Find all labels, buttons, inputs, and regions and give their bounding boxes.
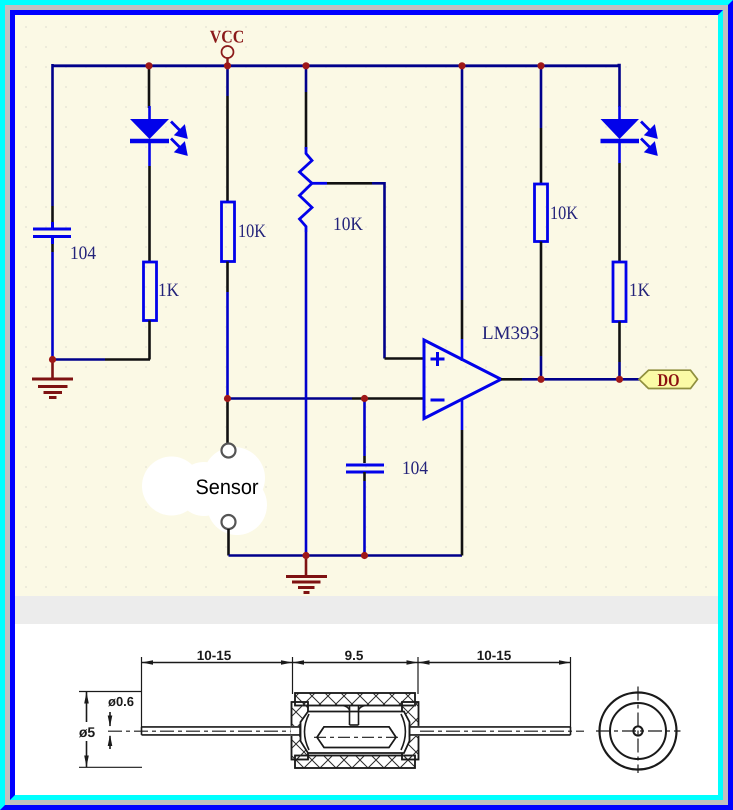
body top wall hatched <box>295 693 415 706</box>
wire R3 top drop <box>226 65 229 202</box>
svg-text:10K: 10K <box>333 214 363 235</box>
junction node output/R4 <box>537 376 544 383</box>
svg-text:1K: 1K <box>629 280 650 301</box>
dimension dia5 vertical <box>79 692 142 768</box>
dimension line 9.5 <box>293 660 419 665</box>
contact cup pill <box>301 712 410 754</box>
schematic background <box>15 15 718 596</box>
ground G1 <box>32 360 73 398</box>
wire C1 bottom drop <box>51 244 54 360</box>
wire LED1 to R2 <box>148 166 151 262</box>
center post <box>343 706 365 726</box>
resistor R5 1K <box>613 262 626 322</box>
extension line body right <box>417 657 419 694</box>
dimension line 10-15 left <box>142 660 293 665</box>
centerline through leads <box>108 730 584 732</box>
wire op-amp gnd drop <box>461 399 464 556</box>
junction node rail/VCC <box>224 62 231 69</box>
svg-text:ø0.6: ø0.6 <box>108 694 134 709</box>
svg-text:10-15: 10-15 <box>477 648 512 663</box>
LED D2 <box>601 106 657 163</box>
junction node rail/R4 <box>537 62 544 69</box>
lead tip tick left <box>299 725 301 737</box>
svg-text:104: 104 <box>70 243 96 264</box>
svg-text:Sensor: Sensor <box>196 476 259 499</box>
resistor R3 10K <box>222 202 235 262</box>
wire pot top drop <box>305 65 308 149</box>
end view outer circle <box>600 693 677 770</box>
wire minus input horizontal <box>228 397 425 400</box>
white cloud behind Sensor <box>142 447 267 535</box>
end view center hole <box>633 726 642 735</box>
sensor terminal bottom <box>222 515 236 529</box>
extension line left lead end <box>141 657 143 727</box>
svg-text:10K: 10K <box>238 221 266 242</box>
mass pill <box>314 727 400 748</box>
body bottom wall hatched <box>295 756 415 769</box>
junction node bottom rail/C2 <box>361 552 368 559</box>
junction node rail/pot <box>302 62 309 69</box>
wire R5 bottom to output <box>618 322 621 380</box>
svg-text:104: 104 <box>402 458 428 479</box>
lead channel left <box>291 726 309 736</box>
sensor terminal top <box>222 444 236 458</box>
junction node minus/C2 <box>361 395 368 402</box>
wire LED1 top drop <box>148 65 151 108</box>
cup mouth right <box>401 714 405 750</box>
svg-text:10-15: 10-15 <box>197 648 232 663</box>
dimension dia0.6 arrows <box>108 712 113 749</box>
DO output flag <box>639 370 698 390</box>
junction node output/DO <box>616 376 623 383</box>
svg-text:VCC: VCC <box>210 27 245 47</box>
wire op-amp output <box>501 378 640 381</box>
LED D1 <box>130 106 186 166</box>
wire sensor bottom stub <box>227 529 230 556</box>
svg-text:10K: 10K <box>550 203 578 224</box>
wire C2 top drop <box>363 399 366 464</box>
svg-text:ø5: ø5 <box>79 724 96 740</box>
wire C2 bottom drop <box>363 472 366 556</box>
ground G2 <box>286 556 327 593</box>
op-amp U1 LM393 <box>424 340 501 419</box>
wire ground link horizontal <box>53 358 151 361</box>
wire pot bottom drop <box>305 232 308 556</box>
svg-text:9.5: 9.5 <box>345 648 364 663</box>
junction node rail/op-amp power <box>458 62 465 69</box>
extension line body left <box>292 657 294 694</box>
wire bottom ground rail <box>229 554 463 557</box>
dimension line 10-15 right <box>418 660 571 665</box>
wire op-amp V+ drop <box>461 65 464 361</box>
wire rail right corner to LED2 <box>618 65 620 107</box>
junction node bottom rail/pot <box>302 552 309 559</box>
wire R4 bottom to output <box>540 242 543 380</box>
lead channel right <box>402 726 420 736</box>
extension line right lead end <box>570 657 572 727</box>
potentiometer RP1 10K zigzag <box>300 147 313 232</box>
wire sensor top stub <box>226 399 229 444</box>
lead tip tick right <box>409 725 411 737</box>
body left cap hatched <box>292 702 309 760</box>
resistor R2 1K <box>144 262 157 321</box>
junction node sensor/minus <box>224 395 231 402</box>
wire left C1 drop upper <box>51 64 54 227</box>
cup mouth left <box>305 714 310 750</box>
body right cap hatched <box>402 702 419 760</box>
wire top VCC rail <box>53 64 620 67</box>
lead right <box>410 727 571 735</box>
VCC symbol <box>210 27 245 65</box>
wire LED2 to R5 <box>618 163 621 262</box>
white drawing background <box>15 624 718 795</box>
lead left <box>142 727 301 735</box>
wire pot wiper arm <box>312 183 424 358</box>
junction node rail/LED1 <box>145 62 152 69</box>
svg-text:LM393: LM393 <box>482 323 539 344</box>
resistor R4 10K <box>535 184 548 242</box>
junction node C1/R2 ground <box>49 356 56 363</box>
capacitor C1 104 <box>33 222 71 244</box>
wire R4 top drop <box>540 65 543 184</box>
wire R3 bottom to minus node <box>226 262 229 399</box>
svg-text:1K: 1K <box>158 280 179 301</box>
grey divider band <box>15 596 718 624</box>
svg-text:DO: DO <box>658 370 680 390</box>
end view crosshair <box>596 687 681 774</box>
end view inner circle <box>610 703 666 759</box>
wire R2 bottom to ground corner <box>148 321 151 360</box>
capacitor C2 104 <box>346 465 384 472</box>
